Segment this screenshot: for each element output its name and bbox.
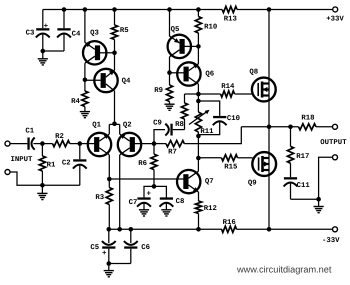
wire Q6 base [170,72,184,74]
node bottom rail / Q2 collector [117,227,122,232]
svg-text:R8: R8 [175,121,184,129]
wire feedback R7 to output node [184,127,241,144]
wire Q3 collector [84,63,86,79]
ground below C7 [139,210,149,216]
wire Q4 collector [114,91,116,124]
node Q5 collector / Q6 base / R9 [167,70,172,75]
resistor R13 [222,6,240,23]
node R10 / Q5 base / Q6 emitter [196,44,201,49]
svg-text:Q4: Q4 [122,78,131,86]
capacitor C7 [129,186,154,209]
resistor R14 [198,83,252,97]
capacitor C10 [198,101,240,135]
svg-text:www.circuitdiagram.net: www.circuitdiagram.net [236,265,332,275]
capacitor C8 [154,186,184,209]
node R11 / C10 top [196,94,201,103]
capacitor C3 [26,10,50,52]
node C5 ground [107,261,112,266]
svg-text:R7: R7 [168,149,177,157]
resistor R17 [287,127,309,177]
ground below C5/C6 [104,264,114,277]
node diff pair emitters [112,122,117,127]
node R11 / C10 bottom [196,134,201,139]
svg-text:+: + [102,250,107,258]
mosfet Q8 [249,68,275,101]
node Q4 base / R4 [83,78,88,83]
wire C3-C4 junction [41,49,65,54]
svg-text:C11: C11 [297,182,311,190]
svg-text:R9: R9 [154,87,163,95]
terminal input return [5,170,10,175]
resistor R5 [111,10,128,53]
node top rail / Q8 drain [267,7,272,12]
resistor R7 [154,141,184,157]
wire Q5 emitter from rail [169,10,171,37]
svg-text:C8: C8 [176,198,185,206]
wire Q7 emitter [198,192,200,201]
svg-text:Q5: Q5 [171,26,180,34]
wire Q8 drain-source column [268,10,270,127]
node top rail / C4 [62,7,67,12]
svg-text:Q2: Q2 [123,122,132,130]
svg-text:-33V: -33V [322,237,340,245]
node R2 / C2 / Q1 base [78,141,83,146]
terminal +33V [326,7,344,24]
svg-text:R5: R5 [120,27,129,35]
wire Q3 base [100,52,115,54]
wire Q3 emitter from rail [84,10,86,43]
resistor R10 [195,10,217,47]
svg-text:+: + [147,190,152,198]
svg-text:Q1: Q1 [92,122,101,130]
label INPUT [11,156,34,164]
svg-text:R6: R6 [138,160,147,168]
transistor Q4 [94,69,131,92]
node output / R17 tap [288,125,293,130]
resistor R4 [71,80,88,112]
svg-text:+33V: +33V [326,16,344,24]
node bottom rail / C6 [129,227,134,232]
node output / MOSFET junction [267,125,272,130]
svg-text:OUTPUT: OUTPUT [320,139,347,147]
svg-text:C4: C4 [72,31,81,39]
node top rail / R5 [112,7,117,12]
resistor R2 [42,133,79,147]
resistor R12 [195,201,216,229]
wire Q6 emitter [197,46,199,63]
capacitor C9 [153,119,184,143]
label www.circuitdiagram.net [236,265,332,275]
svg-text:R1: R1 [47,162,56,170]
terminal -33V [322,227,340,245]
wire emitter bridge Q1-Q2 [109,124,119,134]
mosfet Q9 [248,152,276,187]
terminal OUTPUT [320,124,347,147]
node bottom rail / R12 [196,227,201,232]
resistor R6 [138,144,157,187]
wire Q1 base [80,143,95,145]
wire C5-C6 bottom join [109,263,131,265]
svg-text:C5: C5 [90,244,99,252]
transistor Q1 [88,122,111,157]
capacitor C1 [25,128,42,150]
wire output node line [241,126,298,128]
node Q1 collector / R3 / Q7 base [107,177,112,182]
svg-text:R12: R12 [204,205,217,213]
node R1 bottom / return wire [40,183,45,188]
node Q2 base / R6 / R7 / C9 [152,141,157,146]
ground below C3/C4 [38,51,48,65]
svg-text:R3: R3 [95,194,104,202]
wire Q2 collector [119,155,121,229]
svg-text:R15: R15 [224,164,237,172]
svg-text:C6: C6 [141,244,150,252]
wire bias chain [197,136,199,158]
node top rail / Q3 emitter [83,7,88,12]
svg-text:C10: C10 [227,115,240,123]
capacitor C2 [62,144,87,186]
wire to Q7 base [109,178,183,180]
node R15 tap [196,156,201,161]
transistor Q3 [83,30,106,65]
svg-text:R2: R2 [55,133,64,141]
node C1 / R1 / R2 [40,141,45,146]
wire -33V bottom supply rail [109,228,333,230]
svg-text:C1: C1 [25,128,34,136]
capacitor C11 [284,177,311,199]
svg-text:Q8: Q8 [249,68,258,76]
wire Q4 base [85,79,101,81]
resistor R15 [198,155,252,172]
node top rail / Q5 emitter [167,7,172,12]
svg-text:Q7: Q7 [205,178,214,186]
terminal input signal [5,141,10,146]
wire Q4 emitter [114,53,116,71]
wire Q9 drain-source column [268,127,270,230]
node R6 / C7 / C8 [152,184,157,189]
node Q6 collector / R8 / R14 [196,92,201,97]
ground output [314,199,324,213]
svg-text:C7: C7 [129,199,138,207]
wire to Q7 collector [197,158,199,171]
transistor Q6 [177,62,214,85]
svg-text:R13: R13 [224,15,238,23]
svg-text:Q9: Q9 [248,179,257,187]
resistor R1 [39,144,56,186]
resistor R9 [154,73,172,105]
wire input return [10,172,80,185]
svg-text:R4: R4 [71,98,80,106]
ground below R1 [37,185,47,199]
svg-text:R18: R18 [301,115,314,123]
resistor R18 [299,115,333,130]
wire Q2 base to feedback node [135,143,155,145]
wire C11 to ground junction [291,198,319,200]
svg-text:C3: C3 [26,30,35,38]
svg-text:INPUT: INPUT [11,156,34,164]
capacitor C6 [124,229,150,263]
capacitor C4 [57,10,81,52]
capacitor C5 [90,229,115,263]
node top rail / R10 [196,7,201,12]
terminal output return [333,155,338,160]
ground below R4 [80,112,90,118]
wire input to C1 [10,143,27,145]
svg-text:+: + [44,23,49,31]
svg-text:R10: R10 [204,24,217,32]
node bottom rail / Q9 source [267,227,272,232]
wire Q5 collector [169,57,171,73]
svg-text:R17: R17 [296,153,309,161]
wire Q1 collector [108,155,110,179]
svg-text:C2: C2 [62,160,71,168]
transistor Q2 [118,122,141,157]
resistor R16 [222,219,239,232]
ground below C8 [161,210,171,216]
wire Q5 base [184,45,198,47]
ground below R9 [164,104,174,110]
transistor Q7 [177,170,214,193]
resistor R3 [95,179,112,229]
svg-text:R14: R14 [221,83,235,91]
wire output return [319,157,333,199]
svg-text:Q6: Q6 [205,71,214,79]
svg-text:R16: R16 [223,219,236,227]
node bottom rail / R3 / C5 [107,227,112,232]
svg-text:C9: C9 [153,119,162,127]
wire +33V top supply rail [43,9,333,11]
trimmer R11 [189,101,214,136]
node C11 / return ground [316,197,321,202]
node R5 / Q3 base / Q4 emitter [112,51,117,56]
svg-text:Q3: Q3 [90,30,99,38]
wire Q6 collector [197,84,199,94]
transistor Q5 [168,26,191,58]
resistor R8 [175,94,198,130]
